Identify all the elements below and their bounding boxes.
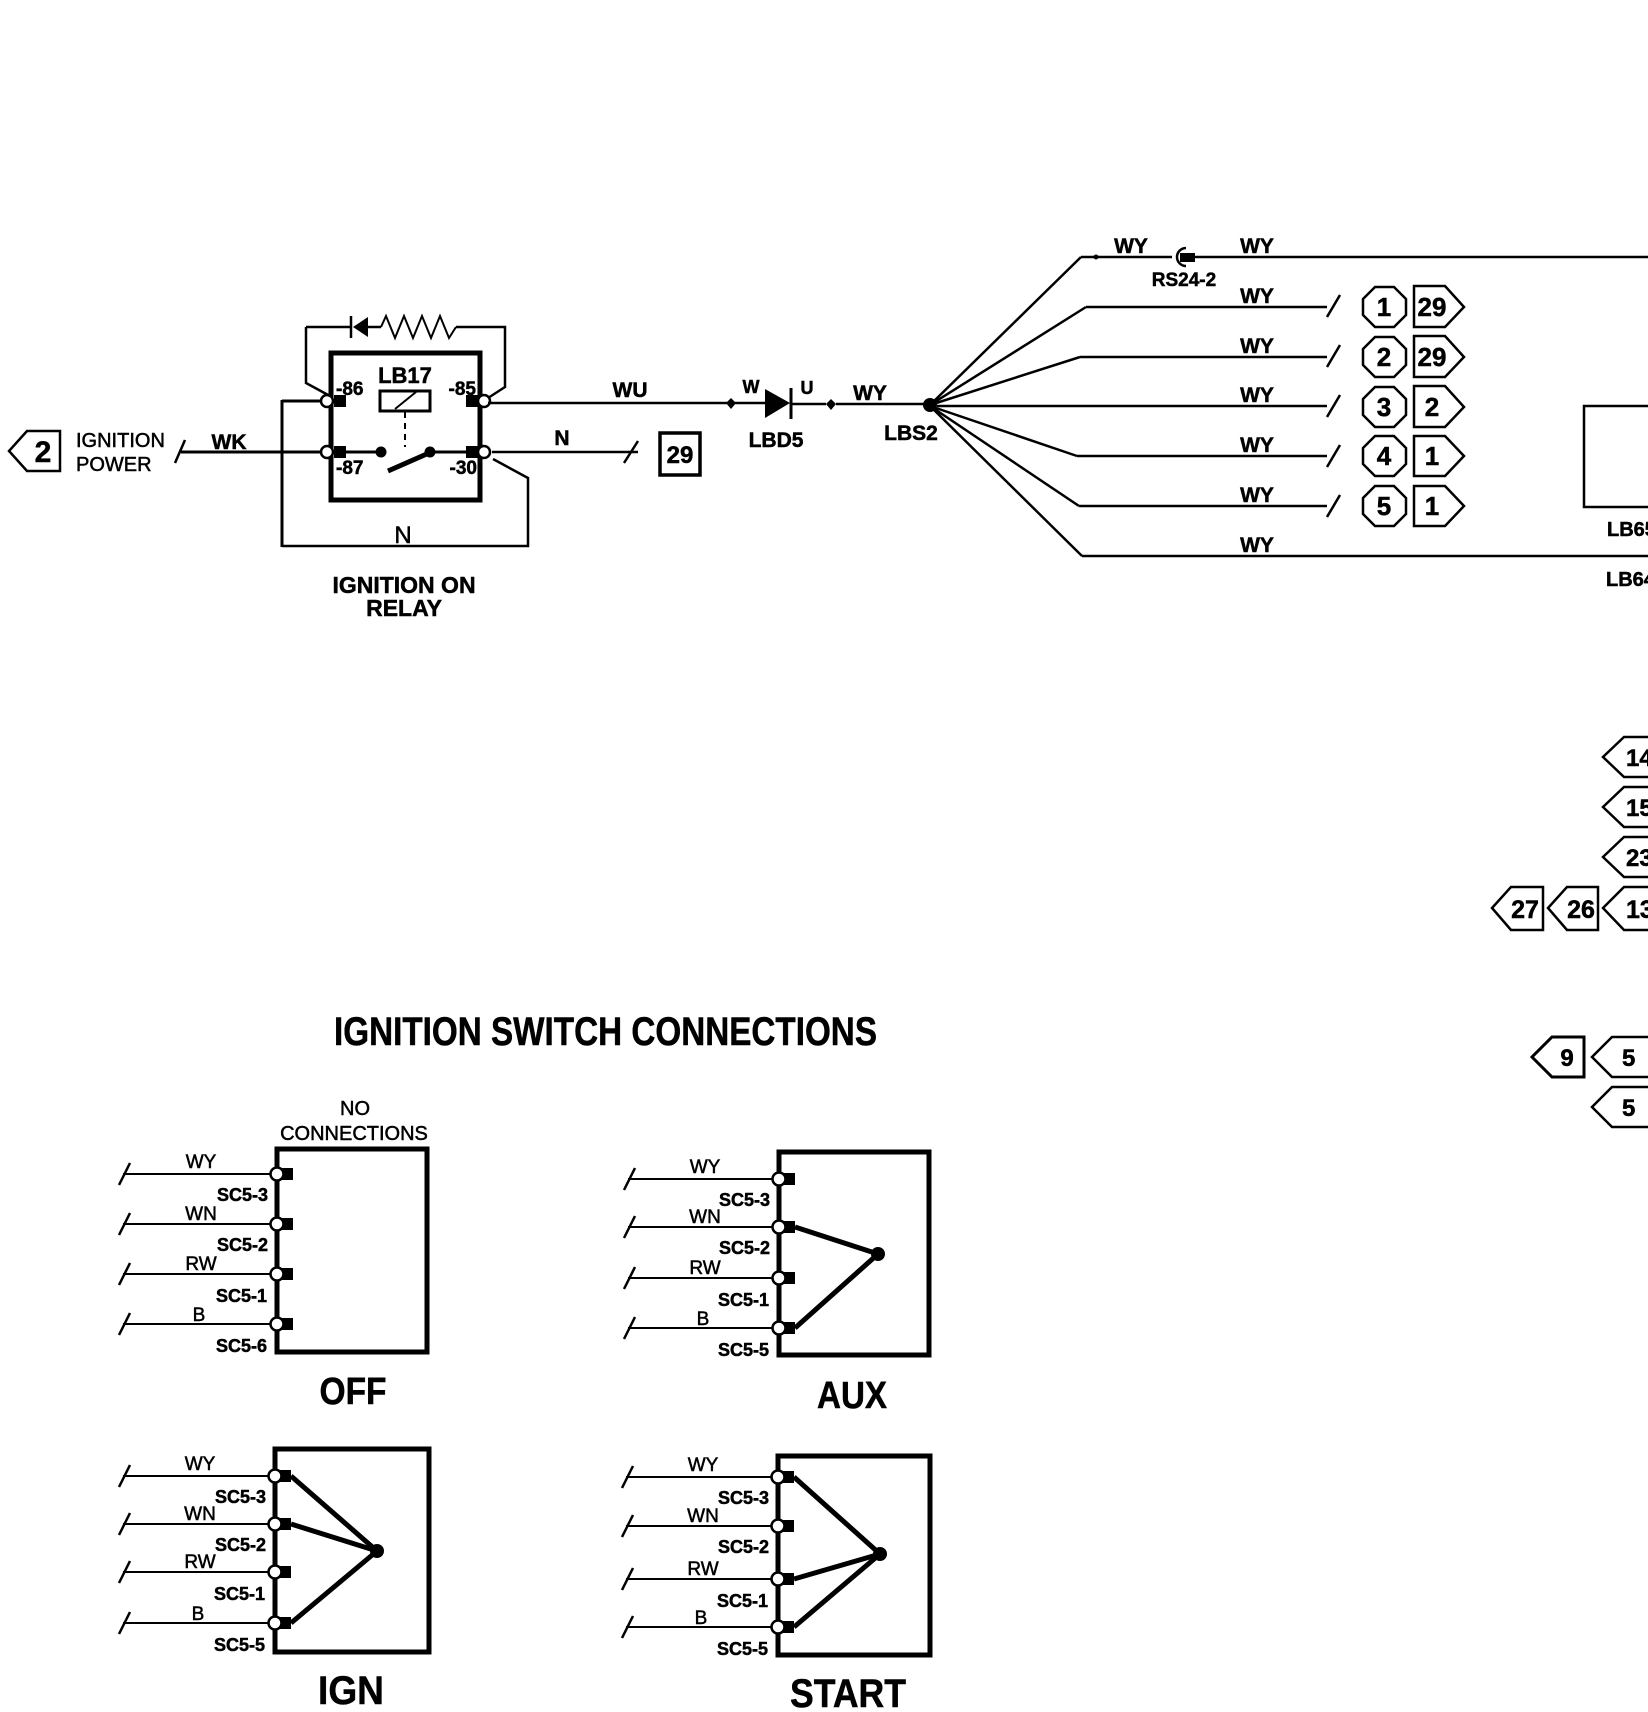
wire fan row5 diagonal: [930, 406, 1077, 456]
wire suppression loop right riser: [456, 327, 505, 398]
switch AUX pin SC5-2: [773, 1221, 796, 1234]
node LBS2: [884, 398, 938, 445]
connector pin octagon 3: [1363, 387, 1406, 427]
svg-text:5: 5: [1622, 1045, 1635, 1072]
switch START box: [778, 1456, 930, 1655]
svg-text:2: 2: [35, 436, 52, 469]
svg-text:WN: WN: [185, 1204, 217, 1225]
svg-text:LB64: LB64: [1606, 569, 1648, 591]
svg-text:RW: RW: [184, 1552, 215, 1573]
svg-text:B: B: [192, 1604, 205, 1625]
junction diamond W: [726, 398, 736, 409]
switch OFF wire B: [119, 1305, 272, 1356]
svg-text:SC5-3: SC5-3: [718, 1488, 769, 1508]
node IGNITION POWER label: [76, 430, 165, 476]
svg-text:2: 2: [1377, 342, 1391, 372]
svg-text:U: U: [801, 378, 814, 398]
switch OFF box: [277, 1149, 427, 1352]
svg-text:-87: -87: [336, 458, 363, 479]
svg-text:SC5-5: SC5-5: [214, 1635, 265, 1655]
relay coil LB17: [380, 391, 430, 411]
relay LB17 box: [331, 353, 480, 500]
connector flag 1 row5: [1414, 436, 1464, 476]
svg-text:WY: WY: [1114, 235, 1148, 258]
pin -86 circle: [321, 395, 333, 407]
svg-text:WN: WN: [184, 1504, 216, 1525]
svg-text:WY: WY: [690, 1157, 721, 1178]
svg-text:IGNITION: IGNITION: [76, 430, 165, 452]
svg-text:WN: WN: [689, 1207, 721, 1228]
svg-text:3: 3: [1377, 392, 1391, 422]
svg-text:-85: -85: [449, 379, 477, 400]
svg-text:B: B: [695, 1608, 708, 1629]
diode (relay suppression): [351, 316, 368, 338]
switch OFF wire WN: [119, 1204, 272, 1255]
svg-text:WY: WY: [1240, 285, 1274, 308]
switch IGN pin SC5-3: [269, 1470, 292, 1483]
wire WK: [181, 431, 324, 454]
switch START wire WN: [622, 1506, 773, 1557]
connector pin octagon 4: [1363, 436, 1406, 476]
switch AUX wire WY: [624, 1157, 774, 1210]
pin -30 circle: [478, 446, 490, 458]
connector tag 2 (ignition power source): [9, 431, 60, 471]
wire row4 WY horizontal: [937, 384, 1327, 407]
svg-text:NO: NO: [340, 1098, 370, 1120]
svg-text:WY: WY: [1240, 434, 1274, 457]
connector tag 27: [1492, 887, 1543, 930]
wire row1 WY output: [1195, 235, 1648, 258]
wire W: [735, 377, 765, 403]
switch IGN wire WY: [119, 1454, 270, 1507]
svg-text:23: 23: [1626, 845, 1648, 872]
switch OFF pin SC5-2: [271, 1218, 294, 1231]
connector pin octagon 2: [1363, 337, 1406, 377]
svg-text:SC5-2: SC5-2: [719, 1238, 770, 1258]
connector tag 5 lower (cut at right edge): [1592, 1087, 1648, 1127]
svg-text:WY: WY: [688, 1455, 719, 1476]
switch AUX contact bridge SC5-2 to SC5-5: [795, 1227, 885, 1328]
pin -30 terminal square: [466, 446, 478, 458]
switch START pin SC5-1: [772, 1573, 795, 1586]
svg-text:SC5-3: SC5-3: [215, 1487, 266, 1507]
svg-text:LB17: LB17: [378, 363, 432, 388]
svg-text:SC5-2: SC5-2: [217, 1235, 268, 1255]
pin -85 terminal square: [466, 395, 478, 407]
switch OFF wire WY: [119, 1152, 272, 1205]
svg-text:SC5-5: SC5-5: [717, 1639, 768, 1659]
connector tag 9: [1532, 1037, 1584, 1077]
svg-text:SC5-3: SC5-3: [217, 1185, 268, 1205]
switch IGN pin SC5-2: [269, 1518, 292, 1531]
wire fan row3 diagonal: [930, 357, 1080, 405]
svg-text:2: 2: [1425, 392, 1439, 422]
svg-text:SC5-6: SC5-6: [216, 1336, 267, 1356]
wire N slash mark: [624, 441, 638, 463]
svg-text:LB65: LB65: [1607, 519, 1648, 541]
svg-text:29: 29: [1418, 292, 1447, 322]
svg-text:CONNECTIONS: CONNECTIONS: [280, 1123, 428, 1145]
svg-text:1: 1: [1425, 491, 1439, 521]
wire diode to resistor: [368, 326, 381, 329]
svg-text:RS24-2: RS24-2: [1152, 270, 1216, 291]
junction dot row1: [1094, 255, 1099, 260]
svg-text:B: B: [697, 1309, 710, 1330]
switch IGN wire WN: [119, 1504, 270, 1555]
svg-text:N: N: [554, 427, 569, 450]
svg-text:W: W: [743, 377, 760, 397]
svg-text:N: N: [394, 522, 411, 549]
svg-text:1: 1: [1377, 292, 1391, 322]
svg-text:WY: WY: [185, 1454, 216, 1475]
resistor (relay suppression): [381, 316, 456, 338]
svg-text:5: 5: [1377, 491, 1391, 521]
switch OFF pin SC5-1: [271, 1268, 294, 1281]
connector tag 5 upper (cut at right edge): [1592, 1037, 1648, 1077]
connector tag 14 (cut at right edge): [1603, 737, 1648, 777]
wire row3 slash mark: [1327, 345, 1340, 367]
wire WK slash mark: [175, 440, 185, 463]
connector tag 26: [1548, 887, 1598, 930]
svg-text:29: 29: [1418, 342, 1447, 372]
pin -85 circle: [478, 395, 490, 407]
wire stub to pin -86: [282, 400, 326, 403]
svg-text:14: 14: [1626, 745, 1648, 772]
switch OFF pin SC5-3: [271, 1168, 294, 1181]
svg-text:RW: RW: [185, 1254, 216, 1275]
connector pin octagon 1: [1363, 287, 1406, 327]
wire row2 WY: [1086, 285, 1327, 308]
svg-text:SC5-1: SC5-1: [216, 1286, 267, 1306]
switch START wire RW: [622, 1559, 773, 1611]
svg-text:RW: RW: [689, 1258, 720, 1279]
svg-text:15: 15: [1626, 795, 1648, 822]
connector box 29: [660, 433, 700, 475]
wire row3 WY: [1080, 335, 1327, 358]
wire to diode: [306, 326, 351, 329]
svg-text:IGN: IGN: [318, 1669, 384, 1712]
svg-text:WU: WU: [613, 379, 648, 402]
switch IGN contact bridge SC5-3 SC5-2 SC5-5: [291, 1476, 384, 1623]
connector flag 29 row2: [1414, 286, 1464, 327]
connector pin octagon 5: [1363, 486, 1406, 526]
svg-text:29: 29: [667, 442, 694, 469]
connector flag 2 row4: [1414, 386, 1464, 427]
pin -86 terminal square: [334, 395, 346, 407]
svg-text:SC5-5: SC5-5: [718, 1340, 769, 1360]
svg-text:SC5-2: SC5-2: [215, 1535, 266, 1555]
switch AUX wire RW: [624, 1258, 774, 1310]
svg-text:27: 27: [1511, 896, 1539, 924]
relay switch contact arm: [346, 447, 466, 472]
svg-text:IGNITION SWITCH CONNECTIONS: IGNITION SWITCH CONNECTIONS: [334, 1010, 877, 1054]
svg-text:POWER: POWER: [76, 454, 152, 476]
svg-text:WN: WN: [687, 1506, 719, 1527]
pin -87 terminal square: [334, 446, 346, 458]
wire row6 slash mark: [1327, 495, 1340, 517]
wire row7 WY long: [1082, 534, 1648, 557]
wire U: [792, 378, 826, 404]
wire row4 slash mark: [1327, 395, 1340, 417]
svg-text:AUX: AUX: [817, 1375, 888, 1417]
svg-text:WK: WK: [212, 431, 247, 454]
wire row6 WY: [1079, 484, 1327, 507]
svg-text:B: B: [193, 1305, 206, 1326]
switch AUX wire WN: [624, 1207, 774, 1258]
svg-text:WY: WY: [1240, 335, 1274, 358]
svg-text:SC5-1: SC5-1: [214, 1584, 265, 1604]
svg-text:RELAY: RELAY: [366, 595, 442, 621]
switch IGN pin SC5-5: [269, 1617, 292, 1630]
svg-text:OFF: OFF: [320, 1371, 387, 1413]
wire row5 slash mark: [1327, 445, 1340, 467]
switch AUX pin SC5-3: [773, 1173, 796, 1186]
switch AUX pin SC5-1: [773, 1272, 796, 1285]
svg-text:4: 4: [1377, 441, 1392, 471]
svg-text:WY: WY: [186, 1152, 217, 1173]
switch IGN pin SC5-1: [269, 1566, 292, 1579]
svg-text:RW: RW: [687, 1559, 718, 1580]
connector flag 29 row3: [1414, 336, 1464, 377]
svg-text:-86: -86: [336, 379, 363, 400]
relay coil-to-switch dashed link: [404, 412, 406, 447]
switch START wire B: [622, 1608, 773, 1659]
switch START pin SC5-2: [772, 1520, 795, 1533]
switch START contact bridge SC5-3 SC5-1 SC5-5: [794, 1477, 887, 1627]
svg-text:WY: WY: [1240, 384, 1274, 407]
module box LB6 (cut at right edge): [1584, 406, 1648, 507]
wire bottom loop N: [282, 459, 528, 546]
svg-text:LBD5: LBD5: [749, 429, 804, 452]
svg-text:SC5-2: SC5-2: [718, 1537, 769, 1557]
svg-text:WY: WY: [1240, 534, 1274, 557]
switch AUX pin SC5-5: [773, 1322, 796, 1335]
wire WU: [488, 379, 727, 403]
svg-text:26: 26: [1567, 896, 1595, 924]
connector flag 1 row6: [1414, 486, 1464, 526]
switch AUX wire B: [624, 1309, 774, 1360]
switch OFF pin SC5-6: [271, 1318, 294, 1331]
switch IGN box: [275, 1449, 429, 1652]
diode LBD5: [765, 388, 791, 419]
switch OFF caption NO CONNECTIONS: [280, 1098, 428, 1145]
switch OFF wire RW: [119, 1254, 272, 1306]
wire row5 WY: [1077, 434, 1327, 457]
connector tag 13 (cut at right edge): [1603, 887, 1648, 930]
wire fan row2 diagonal: [930, 307, 1086, 405]
wire WY to node: [836, 382, 925, 405]
wire fan row7 diagonal: [930, 406, 1082, 556]
wire row2 slash mark: [1327, 295, 1340, 317]
wire suppression loop left riser: [306, 327, 330, 396]
wire left vertical feed: [281, 400, 284, 547]
svg-text:START: START: [790, 1672, 906, 1712]
switch AUX box: [779, 1152, 929, 1355]
svg-text:13: 13: [1626, 896, 1648, 924]
junction diamond U: [826, 399, 836, 410]
wire fan row1 diagonal: [930, 257, 1081, 405]
svg-text:SC5-1: SC5-1: [717, 1591, 768, 1611]
pin -87 circle: [321, 446, 333, 458]
switch IGN wire B: [119, 1604, 270, 1655]
svg-text:9: 9: [1560, 1045, 1573, 1072]
connector tag 15 (cut at right edge): [1603, 787, 1648, 827]
switch START wire WY: [622, 1455, 773, 1508]
svg-text:SC5-1: SC5-1: [718, 1290, 769, 1310]
svg-text:SC5-3: SC5-3: [719, 1190, 770, 1210]
wire N from pin -30: [492, 427, 638, 452]
wire row1 WY to RS24-2: [1081, 235, 1172, 258]
svg-text:WY: WY: [1240, 484, 1274, 507]
switch IGN wire RW: [119, 1552, 270, 1604]
connector RS24-2: [1152, 248, 1216, 291]
svg-text:WY: WY: [853, 382, 887, 405]
svg-text:WY: WY: [1240, 235, 1274, 258]
svg-text:-30: -30: [450, 458, 477, 479]
wire fan row6 diagonal: [930, 406, 1079, 506]
connector tag 23 (cut at right edge): [1603, 837, 1648, 877]
switch START pin SC5-5: [772, 1621, 795, 1634]
svg-text:5: 5: [1622, 1095, 1635, 1122]
switch START pin SC5-3: [772, 1471, 795, 1484]
svg-text:LBS2: LBS2: [884, 422, 938, 445]
svg-text:1: 1: [1425, 441, 1439, 471]
relay caption IGNITION ON RELAY: [332, 572, 475, 621]
